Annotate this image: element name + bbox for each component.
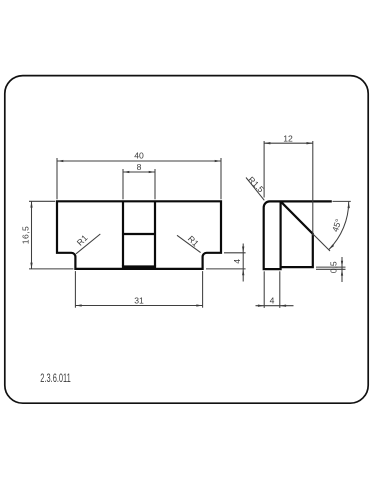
dimension 4 side view: [256, 271, 294, 308]
svg-text:16,5: 16,5: [21, 226, 31, 245]
dimension 40: [57, 158, 221, 199]
svg-text:4: 4: [232, 259, 242, 264]
drawing frame: [5, 76, 368, 404]
channel right wall: [154, 201, 156, 266]
dimension 8: [123, 169, 155, 199]
radius leader R1 right: [177, 235, 201, 252]
dimension 0,5: [316, 257, 346, 282]
svg-text:12: 12: [283, 134, 293, 144]
svg-text:0,5: 0,5: [329, 261, 339, 273]
channel divider: [123, 233, 155, 235]
svg-text:4: 4: [270, 296, 275, 306]
dimension 16,5: [29, 201, 73, 269]
svg-text:2.3.6.011: 2.3.6.011: [40, 372, 71, 385]
part outline front view: [57, 201, 221, 269]
svg-text:31: 31: [134, 295, 144, 305]
radius leader R1 left: [76, 234, 100, 254]
channel left wall: [122, 201, 124, 266]
svg-text:40: 40: [134, 150, 144, 160]
dimension 4 step height: [206, 244, 246, 282]
dimension 12: [264, 141, 313, 236]
side view left bar outline: [264, 201, 332, 269]
svg-text:8: 8: [137, 162, 142, 172]
dimension 31: [75, 271, 202, 308]
side view chamfer and base: [281, 202, 313, 267]
radius leader R1,5: [246, 178, 264, 201]
channel bottom: [122, 265, 156, 268]
angle dimension 45 degrees: [313, 201, 351, 251]
